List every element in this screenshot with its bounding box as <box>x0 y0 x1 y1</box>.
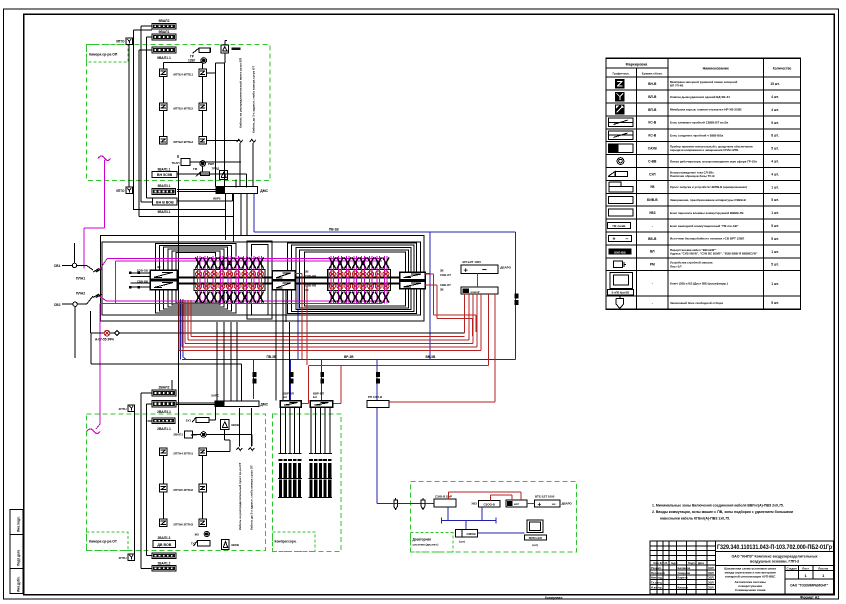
terminal pair column <box>361 256 363 303</box>
svg-text:Звонковый бокс свободной отбор: Звонковый бокс свободной отбора <box>670 301 723 305</box>
svg-text:Завершение, преобразование апп: Завершение, преобразование аппаратуры СЗ… <box>670 198 747 202</box>
wire А-07-55 lower branch <box>90 333 92 364</box>
svg-text:9ПТО: 9ПТО <box>116 40 125 44</box>
red wire to РП СЭП-В <box>389 401 495 403</box>
svg-text:В нПВ Крм ВВ: В нПВ Крм ВВ <box>612 292 630 295</box>
splice arrows upper <box>93 269 102 273</box>
lamp box ТРВД bottom1 <box>221 420 229 430</box>
blue wire pair from strip1 down <box>180 299 182 359</box>
horn ГМ <box>196 172 210 177</box>
terminal pair column <box>219 256 221 303</box>
svg-text:Адреса "СУВ 5ВУВ", "СУВ ВС ВЗУ: Адреса "СУВ 5ВУВ", "СУВ ВС ВЗУВ", "ВЗВ-В… <box>670 251 758 255</box>
svg-text:ЗАРС: ЗАРС <box>211 394 220 398</box>
svg-text:Нач.отд.: Нач.отд. <box>651 576 663 580</box>
distribution box ВВ ключ <box>461 287 498 294</box>
wires components to ДМС <box>224 179 226 187</box>
red corner loops right of XT2 <box>433 274 435 315</box>
svg-text:3В: 3В <box>305 270 309 274</box>
svg-text:2ВАЛ1.3: 2ВАЛ1.3 <box>158 536 171 540</box>
legend symbol battery ВБ-В <box>609 235 632 241</box>
green enclosure Компрессорная <box>272 414 341 551</box>
magenta riser to lower-left camera <box>99 304 101 424</box>
svg-text:СОВ-ОВ: СОВ-ОВ <box>137 269 148 273</box>
svg-text:ДВ ВОВ: ДВ ВОВ <box>157 543 171 547</box>
terminal pair column <box>227 256 229 303</box>
blue drops to bottom connectors <box>253 359 255 399</box>
relay 9ПТБ2 <box>199 103 207 111</box>
svg-text:Бокс соединит.-пробной ч ВВВ-В: Бокс соединит.-пробной ч ВВВ-ВВх <box>670 133 724 137</box>
svg-text:1: 1 <box>822 573 825 578</box>
svg-text:Изм.: Изм. <box>654 561 660 565</box>
terminal СВ1 <box>72 263 76 267</box>
relay 2ПТН6 <box>160 519 168 527</box>
svg-text:2ВАЛ3.1: 2ВАЛ3.1 <box>157 410 171 414</box>
svg-text:Формат А2: Формат А2 <box>800 596 819 600</box>
svg-text:Бокс клеммно-пробной СВВВ-ВТ в: Бокс клеммно-пробной СВВВ-ВТ вх.Вх <box>670 121 729 125</box>
svg-text:Г329.340.110131.043-П-103.702.: Г329.340.110131.043-П-103.702.000-ПБ2-01… <box>717 544 832 551</box>
blue bus ВВ-3В horizontal <box>182 358 516 360</box>
svg-text:1: 1 <box>804 573 807 578</box>
svg-text:1 шт.: 1 шт. <box>771 211 779 215</box>
title block object name <box>716 565 834 567</box>
svg-text:ЭОЛ: ЭОЛ <box>708 571 714 575</box>
magenta riser to upper-left camera <box>83 228 85 269</box>
blue wire ПВ-1В horizontal <box>253 194 255 232</box>
legend symbol valve ВП-В <box>615 105 625 115</box>
svg-text:2ВАЛ1.2: 2ВАЛ1.2 <box>158 562 171 566</box>
junction box ДМС top <box>216 187 258 194</box>
svg-text:4 шт.: 4 шт. <box>771 159 779 163</box>
relay 2ПТН5 <box>160 484 168 492</box>
svg-text:ВБ-В: ВБ-В <box>648 237 657 241</box>
svg-text:3В: 3В <box>440 288 444 292</box>
svg-text:Камера ср-ра ОП: Камера ср-ра ОП <box>89 53 118 57</box>
terminal pair column <box>345 256 347 303</box>
lamp box ТРВД bottom2 <box>222 540 230 550</box>
connector pair КС left of XT1 <box>150 270 177 279</box>
svg-text:8 шт.: 8 шт. <box>771 134 779 138</box>
svg-text:5 шт.: 5 шт. <box>771 198 779 202</box>
svg-text:ВР-3В: ВР-3В <box>344 355 354 359</box>
svg-text:1 шт.: 1 шт. <box>771 185 779 189</box>
harness mid connector loop <box>247 241 272 319</box>
svg-text:2ПТН4 2ПТН1: 2ПТН4 2ПТН1 <box>173 451 193 455</box>
legend symbol УВ <box>609 182 633 192</box>
svg-text:Графическ.: Графическ. <box>613 72 630 76</box>
connector pair КС mid <box>272 271 295 280</box>
svg-text:3В: 3В <box>157 265 161 269</box>
red fanout verticals <box>464 294 466 333</box>
svg-text:+: + <box>613 237 616 243</box>
terminal strip center wires <box>295 277 399 279</box>
svg-text:ЖХ: ЖХ <box>194 533 200 537</box>
wires bottom circuit inner <box>178 390 180 433</box>
svg-text:9ВАЛ1.1: 9ВАЛ1.1 <box>157 56 171 60</box>
svg-text:передачи напряжения и завершен: передачи напряжения и завершения СПАС-ВТ… <box>670 148 738 152</box>
svg-text:ОАО "КНПЗ" Комплекс воздухораз: ОАО "КНПЗ" Комплекс воздухоразделительны… <box>731 555 817 559</box>
svg-text:(шт): (шт) <box>532 543 538 547</box>
terminal pair column <box>196 256 198 303</box>
damper drive 2ПТН left top <box>128 405 135 412</box>
blue wire drop to assembly2 connectors <box>429 232 431 359</box>
svg-text:Проверил: Проверил <box>651 571 665 575</box>
svg-text:Инв.дубл.: Инв.дубл. <box>17 576 21 592</box>
svg-text:9ВР2: 9ВР2 <box>213 197 221 201</box>
svg-text:2ПТН5 2ПТН2: 2ПТН5 2ПТН2 <box>173 488 193 492</box>
battery ВТБ БЗТ 1000 <box>535 500 560 507</box>
svg-text:СМОВ: СМОВ <box>467 532 477 536</box>
svg-text:Разраб.: Разраб. <box>651 566 662 570</box>
svg-text:СВ1: СВ1 <box>54 264 61 268</box>
device СМОВ <box>455 529 477 537</box>
svg-text:А-07-55 3Ф4: А-07-55 3Ф4 <box>95 338 114 342</box>
svg-text:КС-В: КС-В <box>648 134 656 138</box>
svg-text:В/ПВ InfoВ: В/ПВ InfoВ <box>529 537 542 540</box>
svg-text:БЗ: БЗ <box>283 395 287 399</box>
svg-text:Власов: Власов <box>678 585 689 589</box>
relay 9ПТБ4 <box>160 69 168 77</box>
svg-text:Линза рабочерезерв. воспроизве: Линза рабочерезерв. воспроизведения звук… <box>670 159 758 163</box>
terminal pair column <box>212 256 214 303</box>
blue wire to computer <box>478 532 525 534</box>
svg-text:ВН-В: ВН-В <box>648 82 657 86</box>
svg-text:Гл.спец.: Гл.спец. <box>651 581 663 585</box>
long interconnect wires left <box>178 165 180 390</box>
legend symbol damper ВЛ-В <box>615 92 625 102</box>
svg-text:Маркировка: Маркировка <box>626 63 649 67</box>
svg-text:9ВАЛ1: 9ВАЛ1 <box>159 30 170 34</box>
harness outer wire loops wrapping both assemblies <box>100 236 424 321</box>
title block grid <box>650 541 834 594</box>
svg-text:ВН В ВОВ: ВН В ВОВ <box>156 201 174 205</box>
svg-text:ДМС: ДМС <box>260 189 268 193</box>
red loop to bottom connectors <box>308 365 488 367</box>
terminal bar 2ВАЛ1.2 <box>152 553 176 559</box>
terminal bar 9ВАЛ1.2 <box>152 47 176 53</box>
legend symbol connector box КС-В 1 <box>608 118 633 127</box>
svg-text:Карпов: Карпов <box>678 576 688 580</box>
harness assembly2 wire loops <box>288 243 417 314</box>
svg-text:ДВАРО: ДВАРО <box>562 502 573 506</box>
relay 9ПТБ3 <box>199 137 207 145</box>
lamp box СЛ <box>221 45 229 53</box>
relay 2ПТН1 <box>199 448 207 456</box>
red loop СЗЮ to ключ <box>448 492 450 499</box>
battery БП БЗТ 1000 <box>461 265 498 273</box>
red band horizontals <box>191 335 464 337</box>
svg-text:ВП 7П-4В: ВП 7П-4В <box>670 84 683 88</box>
wires ДМС down to harness loops <box>240 194 242 236</box>
wires ДМС to bars <box>177 188 216 190</box>
relay column wires bottom <box>162 455 164 484</box>
connector РП СЭП-В <box>367 401 389 408</box>
relay 9ПТБ6 <box>160 137 168 145</box>
svg-text:РМ: РМ <box>650 263 655 267</box>
terminal pair column <box>243 256 245 303</box>
svg-text:ключ2: ключ2 <box>471 290 480 294</box>
relay 2ПТН4 <box>160 448 168 456</box>
svg-text:УВ: УВ <box>650 185 655 189</box>
red pair from mid connectors down <box>301 274 303 360</box>
connector КС bottom 1 <box>280 401 301 408</box>
relay 9ПТБ5 <box>160 103 168 111</box>
svg-text:9ПТБ5 9ПТБ2: 9ПТБ5 9ПТБ2 <box>173 106 193 110</box>
svg-text:5 шт.: 5 шт. <box>771 147 779 151</box>
svg-text:Н.контр.: Н.контр. <box>651 585 663 589</box>
svg-text:-: - <box>652 301 653 305</box>
svg-text:15 шт.: 15 шт. <box>770 82 779 86</box>
svg-text:С-ВВ: С-ВВ <box>648 159 657 163</box>
svg-text:РП СЭП-В: РП СЭП-В <box>368 395 382 399</box>
svg-text:+: + <box>464 266 469 275</box>
svg-text:САУВ: САУВ <box>648 146 658 150</box>
svg-text:3В: 3В <box>440 269 444 273</box>
terminal pair column <box>353 256 355 303</box>
svg-text:ДВАРО: ДВАРО <box>500 266 511 270</box>
left margin inventory stamp <box>10 510 23 594</box>
svg-text:Копировал: Копировал <box>545 596 562 600</box>
svg-text:2ВАП1: 2ВАП1 <box>173 433 183 437</box>
svg-text:5 шт.: 5 шт. <box>771 263 779 267</box>
svg-text:ПВ-3В: ПВ-3В <box>267 355 277 359</box>
svg-text:№док: №док <box>671 562 679 565</box>
svg-text:12Вт: 12Вт <box>188 59 196 63</box>
svg-text:ГМ: ГМ <box>193 167 198 171</box>
svg-text:ЗВОВ: ЗВОВ <box>231 543 239 547</box>
legend symbol sprinkler <box>616 299 624 309</box>
legend symbol box УВЗ <box>608 209 633 216</box>
terminal pair column <box>368 256 370 303</box>
magenta bus upper <box>107 258 382 260</box>
svg-text:СВ2: СВ2 <box>54 303 61 307</box>
cable break symbols <box>237 139 243 142</box>
connector КС bottom 2 <box>310 401 332 408</box>
device СЗЮ-В БлР <box>434 499 456 507</box>
svg-text:Стадия: Стадия <box>787 566 797 570</box>
sounder РВП <box>200 161 206 167</box>
computer workstation <box>527 520 543 533</box>
terminal СВ2 <box>73 302 77 306</box>
title block stage-sheet columns <box>784 566 786 595</box>
svg-text:-: - <box>652 282 653 286</box>
svg-text:2. Вводы коммутации, зоны маши: 2. Вводы коммутации, зоны машин с ПВ, зо… <box>652 510 793 514</box>
terminal strip body <box>328 270 391 291</box>
terminal pair column <box>258 256 260 303</box>
svg-text:ЭОЛ: ЭОЛ <box>708 566 714 570</box>
svg-text:ЗОН: ЗОН <box>191 433 197 437</box>
svg-text:Подп.дата: Подп.дата <box>17 550 21 566</box>
svg-text:Кабель до 3-х адресн. глоба ка: Кабель до 3-х адресн. глоба камера ср-ра… <box>250 465 254 530</box>
svg-text:Совмещенная схема: Совмещенная схема <box>735 588 766 592</box>
connector 9ВАП1 <box>181 158 190 165</box>
sounder ЖХ <box>205 494 207 496</box>
svg-text:ДМС: ДМС <box>260 403 268 407</box>
magenta bus lower <box>107 300 383 302</box>
wire stubs from left connectors to cable labels <box>130 272 150 274</box>
svg-text:ПЛА1: ПЛА1 <box>76 277 85 281</box>
svg-text:ВЛ: ВЛ <box>650 250 655 254</box>
relay column wires <box>162 77 164 103</box>
svg-text:ВН 5С9В: ВН 5С9В <box>157 173 173 177</box>
blue bus dosing <box>442 520 497 522</box>
svg-text:СОВ-НВ: СОВ-НВ <box>305 274 316 278</box>
damper drive 9ПТО top <box>126 38 133 45</box>
svg-text:1 шт.: 1 шт. <box>771 250 779 254</box>
red band left risers from strip1 <box>190 300 192 336</box>
svg-text:Лист-1Л: Лист-1Л <box>670 264 681 268</box>
svg-text:5 шт.: 5 шт. <box>771 121 779 125</box>
cartridge sensor 2 <box>421 500 425 510</box>
svg-text:9ПТБ4 9ПТБ1: 9ПТБ4 9ПТБ1 <box>173 73 193 77</box>
terminal pair column <box>235 256 237 303</box>
terminal pair column <box>376 256 378 303</box>
svg-text:+: + <box>538 501 542 508</box>
relay 9ПТБ1 <box>199 69 207 77</box>
svg-text:2ВАЛ1.1: 2ВАЛ1.1 <box>157 427 171 431</box>
svg-text:БИВ-В: БИВ-В <box>647 198 658 202</box>
svg-text:9ВАЛ3.1: 9ВАЛ3.1 <box>158 210 171 214</box>
svg-text:2ВАЛ2: 2ВАЛ2 <box>159 386 170 390</box>
svg-text:Бокс выводной коммутационный ": Бокс выводной коммутационный "ПК лю.АВ" <box>670 224 739 228</box>
splice arrows lower <box>93 294 102 298</box>
svg-text:Источник бесперебойного питани: Источник бесперебойного питания +СВ ВРТ … <box>670 237 744 241</box>
svg-text:ЭОЛ: ЭОЛ <box>708 576 714 580</box>
svg-text:9ПТБ6 9ПТБ3: 9ПТБ6 9ПТБ3 <box>173 140 193 144</box>
svg-text:ЭОЛ: ЭОЛ <box>708 581 714 585</box>
svg-text:ЗВОВ: ЗВОВ <box>231 423 239 427</box>
svg-text:воздушных основан. ГПП-3: воздушных основан. ГПП-3 <box>750 560 799 564</box>
svg-text:БЗ: БЗ <box>313 395 317 399</box>
magenta riser between buses <box>115 261 117 303</box>
long verticals to ЗАРС <box>216 322 218 401</box>
svg-text:СВВ-ОТ: СВВ-ОТ <box>440 283 451 287</box>
wire ВН5С9В to ДМС <box>177 173 247 175</box>
thermo group 1 <box>280 407 282 453</box>
svg-text:Кол: Кол <box>660 561 665 565</box>
svg-text:ТКАП: ТКАП <box>172 161 180 165</box>
svg-text:2ПТН6 2ПТН3: 2ПТН6 2ПТН3 <box>173 523 193 527</box>
terminal bar 2ВАЛ3 <box>152 418 175 424</box>
detector А-07-55 <box>104 330 110 336</box>
svg-text:Инв.подл.: Инв.подл. <box>17 516 21 532</box>
svg-text:Бокс переноса клеммы коммутиру: Бокс переноса клеммы коммутируемой ВВВВ-… <box>670 211 744 215</box>
magenta feeds from terminals <box>99 259 107 271</box>
legend table grid <box>606 58 800 309</box>
svg-text:пожарной сигнализации АУП-ВВС: пожарной сигнализации АУП-ВВС <box>725 575 776 579</box>
nested rect verticals mid-low <box>275 290 277 401</box>
legend symbol relay ВН-В <box>615 79 625 89</box>
svg-text:ОАО "ТОЗХИМРЕМОНТ": ОАО "ТОЗХИМРЕМОНТ" <box>790 584 829 588</box>
svg-text:2ПТН: 2ПТН <box>119 556 127 560</box>
svg-text:УВЗ: УВЗ <box>649 211 655 215</box>
svg-text:Мембрана взрыв. клапан-отсекат: Мембрана взрыв. клапан-отсекател НР-УВ-2… <box>670 108 742 112</box>
legend symbol computer <box>610 273 632 289</box>
svg-text:ВТБ БЗТ 1000: ВТБ БЗТ 1000 <box>535 494 555 498</box>
wires top circuit verticals <box>140 26 142 202</box>
svg-text:ВП БЗТ 1000: ВП БЗТ 1000 <box>463 260 482 264</box>
title block doc number <box>716 551 834 553</box>
svg-text:Кабель на распределительный пу: Кабель на распределительный пункт ср-ра … <box>239 58 243 128</box>
cartridge sensor 1 <box>394 500 398 510</box>
svg-text:ВВ-3В: ВВ-3В <box>426 355 436 359</box>
legend symbol box ПК <box>607 222 630 228</box>
svg-text:Буквен.обозн.: Буквен.обозн. <box>642 72 663 76</box>
wire from lamp СЛ down <box>224 53 226 63</box>
svg-text:5 шт.: 5 шт. <box>771 301 779 305</box>
legend symbol box БИВ-В <box>608 196 633 203</box>
svg-text:ВУЛ-ВВ: ВУЛ-ВВ <box>614 250 626 254</box>
legend symbol dark box ВЛ <box>609 248 632 254</box>
terminal strip body <box>194 270 265 291</box>
svg-text:9ВАЛ3.1: 9ВАЛ3.1 <box>158 184 171 188</box>
svg-text:СЗОО-В: СЗОО-В <box>484 503 495 507</box>
relay 2ПТН2 <box>199 484 207 492</box>
legend symbol connector box КС-В 2 <box>608 131 633 140</box>
terminal pair column <box>384 256 386 303</box>
svg-text:−: − <box>482 265 487 275</box>
svg-text:Кросс запуска и устройств ЧВПВ: Кросс запуска и устройств ЧВПВ-В (армиро… <box>670 185 747 189</box>
terminal pair column <box>204 256 206 303</box>
svg-text:ЭОЛ: ЭОЛ <box>708 585 714 589</box>
blue wire right loop down <box>515 232 517 359</box>
wires bottom circuit verticals <box>140 393 142 569</box>
bar ВН В ВОВ <box>153 198 177 205</box>
svg-text:4 шт.: 4 шт. <box>771 172 779 176</box>
svg-text:Лампочки образцов базы ТС-В: Лампочки образцов базы ТС-В <box>670 174 715 178</box>
svg-text:9ПТО: 9ПТО <box>116 189 125 193</box>
svg-text:Ключ (ЗВ) и ВЗ (Дист ВВ) (руси: Ключ (ЗВ) и ВЗ (Дист ВВ) (русифицир.) <box>670 282 728 286</box>
svg-text:Лист: Лист <box>802 566 809 570</box>
terminal pair column <box>250 256 252 303</box>
wire bus around relays <box>215 63 217 187</box>
svg-text:УВЗ: УВЗ <box>471 502 477 506</box>
svg-text:2ПТН: 2ПТН <box>119 407 127 411</box>
wires ЗАРС to bars <box>176 402 215 404</box>
svg-text:1. Минимальные зоны Включения: 1. Минимальные зоны Включения соединения… <box>652 504 784 508</box>
svg-text:КС-В: КС-В <box>648 121 656 125</box>
svg-text:Смирнов: Смирнов <box>678 571 691 575</box>
svg-text:Компрессорн.: Компрессорн. <box>275 540 297 544</box>
terminal pair column <box>330 256 332 303</box>
svg-text:-: - <box>652 224 653 228</box>
svg-text:кл2: кл2 <box>514 502 519 506</box>
green enclosure Камера ср-ра ОП <box>87 45 270 181</box>
cable break symbols bottom <box>236 448 242 451</box>
svg-text:Дата: Дата <box>698 561 705 565</box>
svg-text:Дозаторная: Дозаторная <box>413 538 432 542</box>
red jumper battery <box>527 502 535 504</box>
wires circuit loops down to harness <box>225 210 227 240</box>
green enclosure Дозаторная <box>411 482 577 552</box>
svg-text:ПК люкВ: ПК люкВ <box>613 224 627 228</box>
device СЗОО-В <box>478 501 500 507</box>
sounder РВ <box>201 58 207 64</box>
legend symbol sounder С-ВВ <box>617 158 624 165</box>
blue pair from mid connectors <box>297 278 299 359</box>
device ВВ ключ2 <box>506 500 527 507</box>
svg-text:Подп.: Подп. <box>688 561 696 565</box>
harness assembly1 wire loops <box>156 244 237 314</box>
svg-text:−: − <box>552 501 556 508</box>
svg-text:−: − <box>626 237 629 243</box>
svg-text:РВП: РВП <box>208 162 214 166</box>
svg-text:Количество: Количество <box>773 67 792 71</box>
svg-text:Кабель на распределительный пу: Кабель на распределительный пункт ср-ра … <box>238 463 242 530</box>
svg-text:Камера ср-ра ОТ: Камера ср-ра ОТ <box>89 540 118 544</box>
svg-text:СОВ-ОТ: СОВ-ОТ <box>440 273 451 277</box>
svg-text:навесными кабель КГВнг(А)-ПВЗ: навесными кабель КГВнг(А)-ПВЗ 1х0,75. <box>660 517 730 521</box>
svg-text:Клапан дымоудаления зданий ВД: Клапан дымоудаления зданий ВД ЗВ-34 <box>670 95 730 99</box>
